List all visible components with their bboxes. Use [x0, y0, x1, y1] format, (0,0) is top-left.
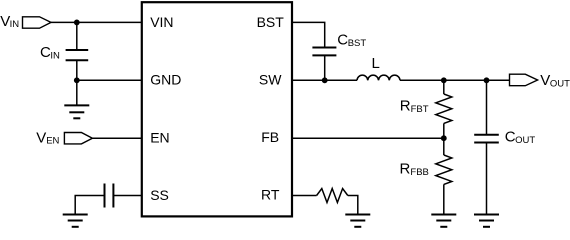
ground (RRT) [345, 215, 370, 227]
wire RFBT to FB node [443, 123, 445, 138]
label CIN [40, 44, 60, 61]
svg-text:RT: RT [261, 186, 280, 202]
inductor L [357, 75, 400, 80]
ground (COUT) [474, 215, 499, 227]
input port VEN tag [64, 133, 92, 144]
capacitor COUT [474, 135, 499, 143]
svg-text:GND: GND [150, 72, 181, 88]
wire CSS to ground [75, 196, 104, 215]
svg-text:EN: EN [46, 135, 59, 146]
svg-text:C: C [505, 128, 516, 145]
svg-text:BST: BST [348, 38, 367, 49]
svg-text:EN: EN [150, 130, 169, 146]
svg-text:C: C [337, 32, 348, 49]
wire VIN tag to VIN pin [51, 21, 142, 23]
wire FB node to RFBB [443, 138, 445, 155]
input port VIN tag [23, 17, 52, 28]
resistor RFBB [436, 155, 452, 184]
wire inductor to VOUT tag [400, 79, 510, 81]
svg-text:IN: IN [50, 50, 60, 61]
label COUT [505, 128, 536, 146]
svg-text:FB: FB [261, 129, 279, 145]
wire VEN tag to EN pin [92, 137, 141, 139]
wire CIN to GND node [76, 60, 78, 80]
junction node SW/CBST [322, 77, 328, 83]
wire FB pin to FB node [292, 137, 444, 139]
svg-text:V: V [540, 72, 550, 89]
label VEN [36, 130, 59, 147]
junction node FB [441, 135, 447, 141]
label VIN [0, 13, 19, 30]
wire RT pin to RRT [292, 195, 317, 197]
wire COUT to ground [486, 143, 488, 215]
label CBST [337, 32, 366, 50]
junction node VIN/CIN [74, 20, 80, 26]
svg-text:R: R [400, 97, 411, 114]
wire VIN node down to CIN [76, 22, 78, 50]
junction node VOUT/COUT [484, 77, 490, 83]
resistor RFBT [436, 94, 452, 123]
svg-text:BST: BST [257, 14, 285, 30]
wire CBST to SW node [324, 55, 326, 80]
wire RRT to ground [348, 196, 358, 215]
IC U1 (buck converter) [142, 2, 292, 216]
resistor RRT (timing) [317, 189, 348, 203]
svg-text:L: L [372, 55, 380, 72]
label RFBB [400, 160, 429, 178]
output port VOUT tag [510, 74, 538, 86]
svg-text:FBT: FBT [411, 104, 429, 115]
ground (CIN) [64, 105, 89, 118]
ground (RFBB) [431, 215, 456, 227]
capacitor CBST [312, 48, 336, 56]
svg-text:V: V [36, 130, 46, 147]
capacitor CIN [66, 50, 89, 60]
wire COUT node down to COUT [486, 80, 488, 134]
wire VOUT node down to RFBT [443, 80, 445, 94]
wire SS pin to CSS [113, 195, 141, 197]
junction node VOUT/RFBT [441, 77, 447, 83]
svg-text:R: R [400, 160, 411, 177]
wire SW pin to inductor [292, 79, 358, 81]
wire BST pin to CBST [292, 22, 325, 47]
svg-text:FBB: FBB [410, 167, 428, 178]
svg-text:C: C [40, 44, 51, 61]
label RFBT [400, 97, 429, 115]
junction node GND/CIN [74, 77, 80, 83]
label VOUT [540, 72, 570, 89]
svg-text:OUT: OUT [515, 135, 535, 146]
wire RFBB to ground [443, 184, 445, 214]
capacitor CSS (soft-start) [105, 184, 114, 208]
svg-text:SS: SS [150, 187, 169, 203]
svg-text:OUT: OUT [550, 79, 570, 90]
svg-text:VIN: VIN [150, 14, 173, 30]
svg-text:IN: IN [10, 19, 20, 30]
wire GND node to GND pin [77, 79, 142, 81]
svg-text:SW: SW [259, 72, 282, 88]
ground (CSS) [63, 215, 88, 227]
wire GND node down to ground [76, 80, 78, 105]
